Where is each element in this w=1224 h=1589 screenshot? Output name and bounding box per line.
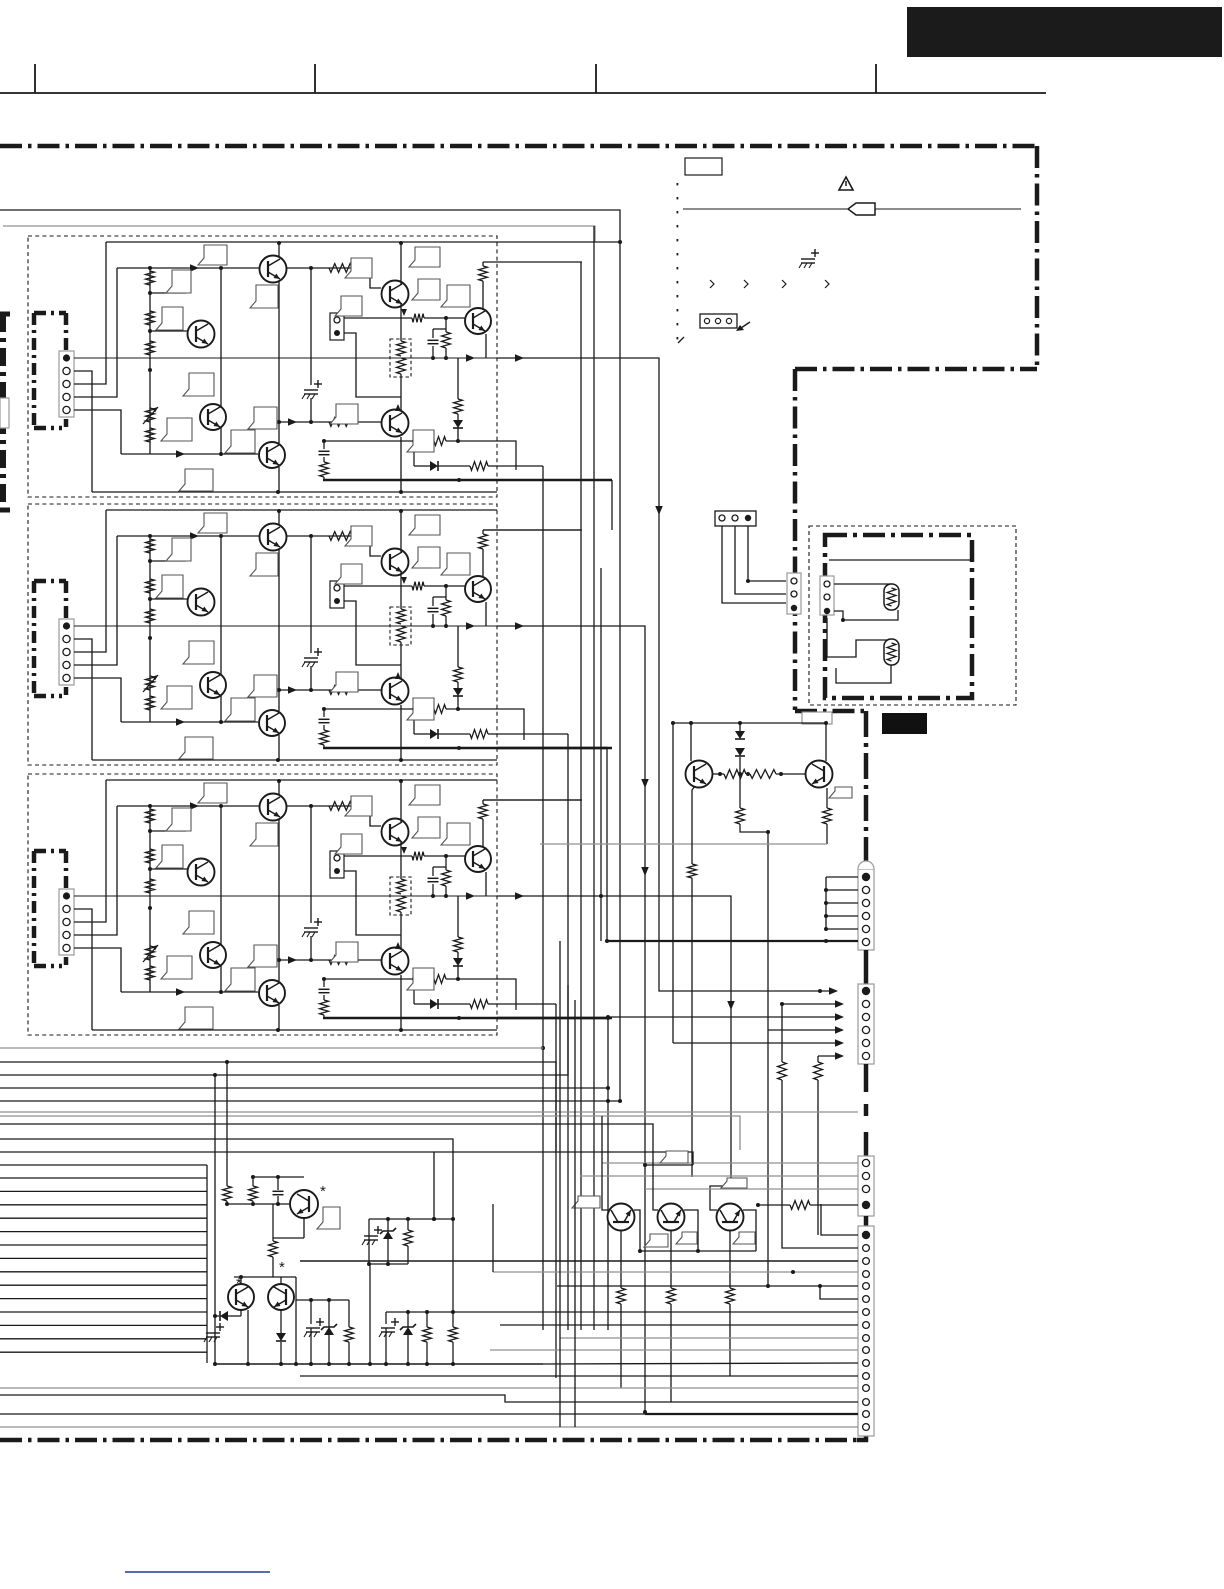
wire CN-mid 3	[748, 526, 786, 581]
wire zener cluster bottom	[369, 1263, 408, 1265]
field wire y1101	[0, 1100, 620, 1102]
connector CNR3 pin4	[862, 1201, 870, 1209]
bold column mid	[864, 950, 869, 987]
value label 3.14	[330, 942, 358, 962]
resistor R213	[428, 705, 446, 714]
value label 3.16	[441, 823, 470, 845]
wire p1 hook	[821, 1204, 858, 1235]
riser mid 2	[220, 536, 222, 722]
wire Q13 emitter	[485, 334, 487, 358]
connector CNR4 pin 1	[862, 1231, 870, 1239]
resistor R315	[320, 1000, 329, 1015]
value label 1.2	[166, 270, 191, 293]
bus wire x581	[580, 262, 582, 1330]
wire Q36 base rail	[279, 959, 381, 961]
boundary dash-dot right upper	[1035, 146, 1040, 369]
wire Q26 emitter	[400, 677, 402, 678]
wire pin5 riser 3	[74, 948, 121, 992]
wire bottom rail 2	[92, 759, 497, 761]
arrow mid 3	[466, 892, 475, 900]
value label 3.9	[179, 1007, 213, 1029]
value label 1.3	[156, 307, 183, 330]
capacitor C31	[432, 867, 434, 876]
connector CN1 pin 3	[63, 380, 70, 387]
electrolytic symbol A	[310, 1300, 312, 1324]
diode D21	[457, 682, 459, 688]
wire ruler tick 4	[875, 64, 877, 93]
bold column upper	[864, 711, 869, 872]
value label 2.9	[179, 737, 213, 759]
label tag Q51b	[676, 1232, 697, 1244]
value label 2.6	[161, 686, 192, 709]
diode D12	[430, 461, 438, 471]
value label 3.6	[161, 956, 192, 979]
bottom line p15	[645, 1413, 858, 1415]
resistor R38	[397, 896, 406, 912]
wire speaker link	[834, 610, 898, 620]
connector CNR4 pin 16	[863, 1424, 870, 1431]
arrow block3 output	[515, 892, 524, 900]
wire ladder taps 3	[150, 830, 186, 832]
bias resistor box 3	[390, 877, 411, 915]
wire rail y226	[3, 226, 595, 242]
wire rail466 1	[413, 441, 415, 466]
transistor Q33	[465, 846, 491, 872]
connector bracket 3	[34, 849, 66, 854]
speaker bold dash-dot box	[825, 535, 972, 698]
boundary dash-dot vertical x795	[793, 369, 798, 710]
transistor Q17	[259, 442, 285, 468]
resistor R113	[428, 437, 446, 446]
value label 1.10	[345, 258, 372, 278]
wire Q12 base	[352, 268, 381, 288]
connector CNR4 pin 4	[863, 1271, 870, 1278]
connector CNR4 pin 2	[863, 1245, 870, 1252]
relay block (black)	[882, 713, 927, 734]
capacitor C12	[323, 441, 325, 449]
wire CNR1 pin bus	[826, 876, 858, 878]
trimmer resistor VR3	[146, 946, 155, 960]
thermistor TH1	[884, 584, 899, 610]
wire Q52 collector	[743, 1210, 756, 1251]
value label 1.14	[330, 404, 358, 424]
value label 2.12	[409, 515, 440, 535]
connector CNR1 pin6	[862, 938, 869, 945]
bottom line p11	[543, 1363, 858, 1364]
wire x453 long	[452, 1219, 454, 1312]
arrow feedback 1	[176, 450, 185, 458]
wire input rail 2	[117, 535, 370, 537]
wire rail441 3	[414, 978, 428, 980]
connector CNR2 pin2	[862, 1000, 869, 1007]
connector CNR4 pin 15	[863, 1411, 870, 1418]
wire pin2 riser 3	[74, 909, 92, 1030]
comb wire 6	[0, 1244, 207, 1246]
amplifier channel block 3 dashed outline	[28, 774, 497, 1035]
resistor R31	[817, 1056, 819, 1062]
resistor R21	[146, 539, 155, 553]
capacitor C22	[323, 709, 325, 717]
value label 2.16	[441, 553, 470, 575]
connector CN1 pin 2	[63, 367, 70, 374]
wire ruler tick 3	[595, 64, 597, 93]
field wire y1088	[0, 1087, 608, 1089]
bottom line p7	[453, 1311, 858, 1313]
bottom line p10	[490, 1349, 858, 1351]
wire Q31 collector	[278, 781, 280, 795]
resistor R110	[445, 318, 447, 332]
comb wire 14	[0, 1351, 207, 1353]
resistor R28	[397, 626, 406, 642]
wire p2 hook	[782, 1204, 858, 1248]
comb wire 3	[0, 1204, 207, 1206]
connector CNS2 pin2	[824, 594, 830, 600]
connector CN1 pin 5	[63, 406, 70, 413]
wire Q51 collector	[684, 1210, 698, 1251]
resistor RA	[348, 1300, 350, 1327]
title block (black)	[907, 7, 1222, 57]
resistor R37	[400, 856, 402, 879]
wire rail441 1	[414, 440, 428, 442]
comb wire 4	[0, 1217, 207, 1219]
resistor R22	[739, 774, 741, 808]
resistor R11	[146, 271, 155, 285]
wire Q20 base row	[712, 773, 724, 775]
connector CNR1 pin1	[862, 873, 870, 881]
block rail extensions 441/466	[497, 441, 516, 470]
arrow input 1	[190, 264, 199, 272]
resistor R19	[482, 262, 484, 266]
zener diode ZDA	[328, 1300, 330, 1327]
comb wire 12	[0, 1324, 207, 1326]
block2 output extension	[497, 626, 645, 1412]
comb wire 9	[0, 1284, 207, 1286]
wire CNR1 pin6 rail (dark)	[607, 940, 858, 942]
riser mid 1	[220, 268, 222, 454]
connector CNR1 pin3	[862, 899, 869, 906]
bias resistor box 2	[390, 607, 411, 645]
arrow feedback 3	[176, 988, 185, 996]
resistor R17	[400, 318, 402, 341]
wire Q23 emitter	[485, 602, 487, 626]
connector CN2 pin 5	[63, 674, 70, 681]
field wire y1124	[0, 1124, 653, 1165]
wire Q21-Q27 chain	[278, 549, 280, 711]
value label 2.14	[330, 672, 358, 692]
connector CNR4 pin 3	[863, 1258, 870, 1265]
bias resistor box 1	[390, 339, 411, 377]
resistor R18	[397, 358, 406, 374]
wire rail466 3	[413, 979, 415, 1004]
wire R23 down	[826, 824, 828, 844]
connector CN3b body	[330, 851, 344, 878]
wire feedback rail 3	[121, 991, 258, 993]
transistor Q31	[260, 794, 287, 821]
value label 1.8	[248, 407, 277, 429]
value label 2.8	[248, 675, 277, 697]
connector CNR2 pin4	[862, 1026, 869, 1033]
wire rail262 3	[483, 799, 582, 801]
field wire y1113a	[0, 1111, 858, 1113]
transistor Q51	[658, 1204, 685, 1231]
resistor R310	[445, 856, 447, 870]
value label 2.11	[335, 564, 362, 584]
wire rail441 2	[414, 708, 428, 710]
comb wire 13	[0, 1338, 207, 1340]
value label 1.7	[225, 430, 255, 453]
wire input rail 3	[117, 805, 370, 807]
diode D41	[276, 1333, 286, 1341]
wire CN2b pin2 route	[344, 601, 401, 665]
resistor R24	[146, 696, 155, 710]
transistor Q13	[465, 308, 491, 334]
connector CNR2 pin5	[862, 1039, 869, 1046]
connector CNR4 pin 7	[863, 1309, 870, 1316]
wire Q41 emitter to diode	[240, 1310, 242, 1316]
resistor R41	[252, 1177, 254, 1186]
wire x692 with resistor	[688, 864, 697, 878]
heavy output rail 3	[323, 1017, 612, 1020]
transistor Q16	[382, 410, 409, 437]
bottom line p12	[300, 1375, 858, 1377]
connector CNR3 body	[858, 1156, 874, 1216]
capacitor C32	[323, 979, 325, 987]
boundary dash-dot top	[0, 144, 1037, 149]
wire Q20 collector	[690, 723, 692, 761]
boundary dash-dot notch horizontal	[795, 367, 1037, 372]
wire Q33 emitter	[485, 872, 487, 896]
arrow Q36 base	[288, 956, 297, 964]
wire rail262 1	[483, 261, 582, 263]
resistor R211	[457, 626, 459, 667]
wire pin2 riser 2	[74, 639, 92, 760]
bottom line p8	[500, 1324, 858, 1326]
connector CN-mid pin2	[732, 515, 738, 521]
riser divider 1	[310, 268, 312, 385]
blue reference line	[125, 1571, 270, 1573]
value label 1.5	[183, 373, 214, 396]
value label 2.13	[412, 547, 440, 568]
transistor Q32	[382, 819, 409, 846]
wire pin2 riser 1	[74, 371, 92, 492]
wire pin5 riser 2	[74, 678, 121, 722]
wire pin3 riser 1	[74, 242, 106, 384]
wire feedback rail 1	[121, 453, 258, 455]
label tag Q52	[733, 1232, 755, 1244]
resistor R32	[758, 1204, 790, 1206]
value label 3.3	[156, 845, 183, 868]
wire resistor ladder 1	[149, 268, 151, 454]
wire pin4 riser 3	[74, 806, 117, 935]
wire to Q13 base	[424, 317, 465, 319]
connector CNS1 pin3	[791, 605, 797, 611]
wire CN1b pin2 route	[344, 333, 401, 397]
wire emitter node 2	[344, 585, 412, 587]
wire Q26 base rail	[279, 689, 381, 691]
transistor Q21	[260, 524, 287, 551]
bottom line p14	[0, 1395, 858, 1402]
bus wire x568	[567, 734, 569, 1330]
capacitor C40	[277, 1177, 279, 1190]
diode D31	[457, 952, 459, 958]
block heavy rail extension 3	[497, 1017, 608, 1020]
resistor R15	[329, 264, 352, 273]
connector CN1 pin 4	[63, 393, 70, 400]
transistor Q52	[717, 1204, 744, 1231]
resistor R32	[146, 849, 155, 863]
resistor R14	[146, 428, 155, 442]
riser mid 3	[220, 806, 222, 992]
diode D11	[457, 414, 459, 420]
electrolytic symbol z1	[368, 1219, 370, 1232]
diode D20	[739, 723, 741, 731]
arrow mid 2	[466, 622, 475, 630]
resistor R214	[470, 730, 488, 739]
connector CN2 body	[59, 619, 74, 685]
bus wire x620	[619, 242, 621, 1101]
connector CNS2 pin3	[824, 608, 830, 614]
connector CN3 pin 1	[63, 892, 70, 899]
transistor Q27	[259, 710, 285, 736]
field wire y1062	[0, 1062, 556, 1151]
resistor R30	[781, 1004, 783, 1062]
wire pin3 riser 3	[74, 780, 106, 922]
label tag Q52top	[721, 1178, 747, 1188]
connector CNR4 pin 8	[863, 1322, 870, 1329]
wire Q40 collector down	[303, 1218, 305, 1238]
connector CNR3 pin1	[862, 1159, 869, 1166]
wire emitter node 3	[344, 855, 412, 857]
field wire y1139	[0, 1139, 453, 1219]
wire top rail 2	[106, 509, 497, 511]
field wire y1152	[0, 1152, 434, 1219]
value label 1.4	[250, 285, 278, 308]
thermistor TH2	[884, 639, 899, 665]
wire Q12 emitter	[400, 304, 402, 318]
resistor R210	[445, 586, 447, 600]
connector CN2 pin 4	[63, 661, 70, 668]
resistor R23	[146, 609, 155, 623]
wire trio collector rail	[640, 1250, 756, 1252]
wire Q32 base	[352, 806, 381, 826]
wire clusterA top	[296, 1299, 349, 1301]
wire pin3 riser 2	[74, 510, 106, 652]
wire x768 long	[767, 832, 769, 1286]
wire Q22 base	[352, 536, 381, 556]
bottom line p3	[300, 1260, 858, 1262]
comb wire 8	[0, 1271, 207, 1273]
resistor R36	[412, 852, 424, 861]
boundary dash-dot jog y711	[795, 709, 866, 714]
connector CNR3 pin3	[862, 1185, 869, 1192]
resistor R311	[457, 896, 459, 937]
value label 1.9	[179, 469, 213, 491]
value label 1.11	[335, 296, 362, 316]
resistor R39	[482, 800, 484, 804]
wire top rail 1	[106, 241, 497, 243]
junction dots rails 1	[276, 490, 280, 494]
connector CNS2 pin1	[824, 581, 830, 587]
comb wire 5	[0, 1231, 207, 1233]
label tag Q40	[317, 1207, 340, 1229]
connector CNR4 pin 12	[863, 1373, 870, 1380]
transistor Q24	[188, 589, 215, 616]
connector CN2b body	[330, 581, 344, 608]
junction ladder 2	[148, 559, 152, 563]
wire speaker feed 1	[834, 584, 891, 585]
wire trio rail 1165	[645, 1164, 693, 1166]
connector CNR1 pin2	[862, 886, 869, 893]
comb wire 2	[0, 1190, 207, 1192]
wire ladder taps 2	[150, 560, 186, 562]
connector CNR4 pin 14	[863, 1399, 870, 1406]
connector CNR1 pin4	[862, 912, 869, 919]
value label 2.2	[166, 538, 191, 561]
vertical x560-575 bottom	[559, 941, 561, 1427]
value label 1.13	[412, 279, 440, 300]
comb right edge	[206, 1165, 208, 1363]
bus wire x594	[593, 226, 595, 1330]
resistor R52	[726, 1288, 735, 1304]
wire CNR2 arrows	[782, 1003, 836, 1005]
connector CNS2 body	[820, 576, 834, 615]
amplifier channel block 2 dashed outline	[28, 504, 497, 765]
wire top rail 3	[106, 779, 497, 781]
wire prot base row	[273, 1257, 296, 1277]
connector CN3b pin 2	[334, 868, 340, 874]
connector arrow	[738, 322, 750, 330]
wire Q41 down	[247, 1310, 249, 1364]
arrow Q26 base	[288, 686, 297, 694]
connector CNR2 pin6	[862, 1052, 869, 1059]
wire feedback rail 2	[121, 721, 258, 723]
riser divider 2	[310, 536, 312, 653]
junction ladder 1	[148, 291, 152, 295]
wire zener2 top	[386, 1311, 453, 1313]
connector CNR2 pin3	[862, 1013, 869, 1020]
bus wire x543	[542, 466, 544, 1330]
value label 3.1	[198, 783, 227, 803]
transistor Q40	[290, 1190, 318, 1218]
bottom line p9	[560, 1337, 858, 1339]
label tag trio	[660, 1151, 688, 1163]
wire rail262 block3	[483, 799, 581, 801]
resistor R22	[146, 579, 155, 593]
polar cap symbol 3	[304, 927, 318, 929]
arrow input 2	[190, 532, 199, 540]
resistor R50	[617, 1288, 626, 1304]
wire Q40 routes	[273, 1237, 304, 1239]
wire x227 vertical	[226, 1062, 228, 1186]
resistor R35	[329, 802, 352, 811]
wire CNR3 pin wires	[602, 1162, 858, 1164]
warning triangle	[839, 177, 853, 190]
connector CN2b pin 1	[334, 585, 340, 591]
wire Q11 collector	[278, 243, 280, 257]
value label 3.7	[225, 968, 255, 991]
diode D21	[735, 748, 745, 756]
boundary dash-dot bottom	[0, 1438, 860, 1443]
connector CN1b pin 1	[334, 317, 340, 323]
wire rail y210	[0, 210, 620, 242]
resistor R312	[329, 956, 352, 965]
wire x673 upper	[672, 723, 674, 1043]
block3 output extension	[497, 896, 731, 1191]
transistor Q15	[200, 404, 226, 430]
wire CN3b pin2 route	[344, 871, 401, 935]
wire pin5 riser 1	[74, 410, 121, 454]
resistor R33	[146, 879, 155, 893]
